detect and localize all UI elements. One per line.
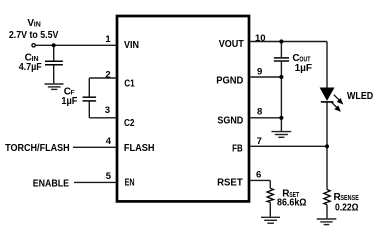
svg-text:10: 10 xyxy=(255,33,266,44)
svg-text:FLASH: FLASH xyxy=(124,143,155,154)
svg-text:SGND: SGND xyxy=(217,116,243,127)
svg-text:2: 2 xyxy=(105,70,110,81)
svg-text:0.22Ω: 0.22Ω xyxy=(335,202,359,213)
svg-text:1µF: 1µF xyxy=(295,63,312,74)
svg-text:3: 3 xyxy=(105,105,110,116)
svg-text:TORCH/FLASH: TORCH/FLASH xyxy=(5,143,70,154)
svg-text:EN: EN xyxy=(125,177,135,188)
svg-text:4.7µF: 4.7µF xyxy=(19,62,42,73)
svg-text:ENABLE: ENABLE xyxy=(33,179,70,190)
svg-text:VOUT: VOUT xyxy=(219,39,244,50)
svg-text:6: 6 xyxy=(256,169,261,180)
svg-text:SENSE: SENSE xyxy=(340,195,359,202)
svg-text:1: 1 xyxy=(105,34,111,45)
svg-text:IN: IN xyxy=(34,21,41,28)
svg-text:RSET: RSET xyxy=(217,178,243,189)
svg-text:2.7V to 5.5V: 2.7V to 5.5V xyxy=(9,30,59,41)
svg-text:C2: C2 xyxy=(124,118,135,129)
svg-text:4: 4 xyxy=(106,136,112,147)
svg-text:86.6kΩ: 86.6kΩ xyxy=(277,198,306,209)
svg-text:FB: FB xyxy=(232,143,243,154)
svg-text:WLED: WLED xyxy=(347,91,373,102)
svg-text:9: 9 xyxy=(257,67,262,78)
svg-text:1µF: 1µF xyxy=(61,96,77,107)
svg-text:PGND: PGND xyxy=(216,75,243,86)
svg-text:VIN: VIN xyxy=(124,40,139,51)
svg-text:8: 8 xyxy=(257,106,262,117)
svg-text:7: 7 xyxy=(257,136,262,147)
svg-text:5: 5 xyxy=(106,171,112,182)
svg-text:C1: C1 xyxy=(124,79,135,90)
